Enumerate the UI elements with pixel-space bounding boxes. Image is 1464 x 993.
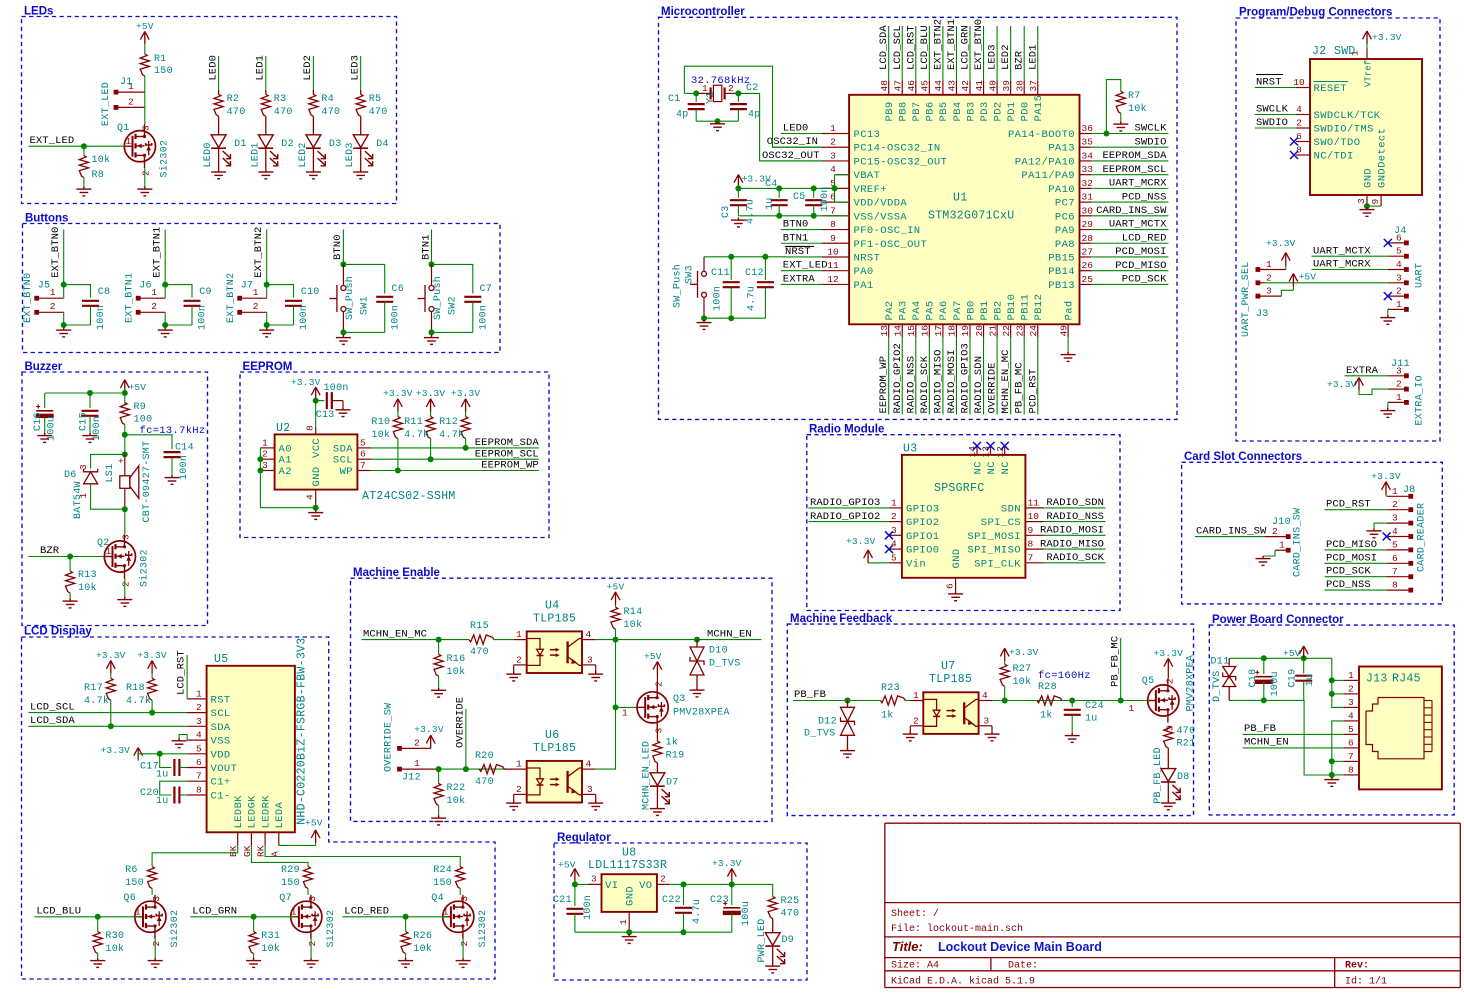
wire SW3 bottom rail xyxy=(704,317,765,319)
IC U5 NHD-C0220BiZ xyxy=(207,666,295,833)
J4 pin3 xyxy=(1404,280,1409,285)
svg-text:26: 26 xyxy=(1082,260,1094,271)
ground (R8) xyxy=(76,187,91,196)
U1 pin23 PB11 xyxy=(1023,324,1025,337)
svg-text:2: 2 xyxy=(50,301,56,312)
wire LED2 branch xyxy=(312,56,314,90)
ground (D8) xyxy=(1161,800,1176,809)
svg-text:KiCad E.D.A. kicad 5.1.9: KiCad E.D.A. kicad 5.1.9 xyxy=(891,976,1035,988)
wire EXT_BTN2 down xyxy=(266,230,268,285)
svg-text:D_TVS: D_TVS xyxy=(709,659,741,670)
svg-text:470: 470 xyxy=(227,107,246,118)
svg-text:J13: J13 xyxy=(1366,673,1388,686)
svg-text:1: 1 xyxy=(618,919,629,925)
section box Machine Feedback xyxy=(787,624,1193,816)
wire +3.3V to Vin xyxy=(868,562,889,564)
svg-text:D6: D6 xyxy=(64,470,77,481)
U1 pin41 PD3 xyxy=(983,81,985,95)
svg-text:TLP185: TLP185 xyxy=(533,742,576,755)
svg-text:PD0: PD0 xyxy=(1020,101,1032,121)
capacitor C23 100u xyxy=(731,884,733,905)
svg-text:OVERRIDE_SW: OVERRIDE_SW xyxy=(384,703,395,772)
capacitor C7 100n xyxy=(464,297,481,302)
svg-text:LCD_SCL: LCD_SCL xyxy=(892,25,904,70)
wire PCD_NSS xyxy=(1092,201,1169,203)
wire RADIO_MOSI xyxy=(1044,534,1106,536)
no-connect X pin4 xyxy=(885,545,893,553)
svg-text:VDD: VDD xyxy=(211,749,231,761)
svg-text:VTref: VTref xyxy=(1364,60,1374,87)
svg-text:7: 7 xyxy=(1348,751,1354,762)
svg-text:1: 1 xyxy=(516,629,522,640)
section box LEDs xyxy=(22,17,397,204)
svg-text:R17: R17 xyxy=(84,683,103,694)
junction (D10) xyxy=(694,637,700,643)
no-connect X J4 pin2 xyxy=(1384,292,1392,300)
svg-text:36: 36 xyxy=(1082,123,1094,134)
svg-text:7: 7 xyxy=(196,771,202,782)
wire RADIO_SCK xyxy=(1044,562,1106,564)
svg-text:C5: C5 xyxy=(793,192,806,203)
capacitor C8 100n xyxy=(82,301,99,306)
junction (U2 gnd) xyxy=(313,505,319,511)
svg-text:C19: C19 xyxy=(1288,669,1299,688)
junction (SW2 bottom) xyxy=(429,329,435,335)
svg-text:3: 3 xyxy=(459,896,470,902)
svg-text:File: lockout-main.sch: File: lockout-main.sch xyxy=(891,923,1023,935)
svg-text:EXT_BTN0: EXT_BTN0 xyxy=(23,273,34,323)
section box EEPROM xyxy=(240,372,549,538)
junction (D6/LS1 top) xyxy=(122,451,128,457)
svg-text:PCD_SCK: PCD_SCK xyxy=(1122,274,1167,286)
svg-text:OSC32_OUT: OSC32_OUT xyxy=(762,150,820,162)
svg-text:D8: D8 xyxy=(1177,772,1190,783)
wire PCD_NSS xyxy=(1325,589,1387,591)
resistor R12 4.7k xyxy=(465,412,467,417)
svg-text:UART_MCRX: UART_MCRX xyxy=(1313,259,1371,271)
svg-text:3: 3 xyxy=(587,654,593,665)
top +5V rail xyxy=(1229,657,1331,659)
svg-text:2: 2 xyxy=(654,681,665,687)
svg-text:PCD_MISO: PCD_MISO xyxy=(1115,260,1166,272)
wire SWCLK xyxy=(1092,133,1169,135)
svg-text:BTN0: BTN0 xyxy=(783,219,809,231)
resistor R14 10k xyxy=(615,605,617,607)
resistor R4 470 xyxy=(312,90,314,94)
ground (R22) xyxy=(431,816,446,825)
svg-text:2: 2 xyxy=(913,715,919,726)
ground (R7) xyxy=(1113,122,1128,131)
U3 pin8 SPI_MISO xyxy=(1025,548,1043,550)
resistor R1 150 xyxy=(140,54,149,76)
svg-text:8: 8 xyxy=(1028,539,1034,550)
U5 pin6 VOUT xyxy=(187,767,207,769)
svg-text:PB2: PB2 xyxy=(992,300,1004,320)
junction (SW2 top) xyxy=(429,261,435,267)
svg-text:R27: R27 xyxy=(1013,664,1032,675)
svg-text:13: 13 xyxy=(879,325,890,337)
svg-text:fc=160Hz: fc=160Hz xyxy=(1038,670,1091,682)
svg-text:7: 7 xyxy=(360,460,366,471)
svg-text:PD3: PD3 xyxy=(979,101,991,121)
svg-text:C15: C15 xyxy=(78,412,89,431)
junction (OVERRIDE) xyxy=(463,766,469,772)
svg-text:1: 1 xyxy=(50,287,56,298)
svg-text:1: 1 xyxy=(253,287,259,298)
ground (Q2) xyxy=(117,597,132,606)
svg-text:LEDRK: LEDRK xyxy=(260,795,272,829)
svg-text:11: 11 xyxy=(827,260,839,271)
svg-text:2: 2 xyxy=(414,738,420,749)
svg-text:2: 2 xyxy=(660,874,666,885)
svg-text:GND: GND xyxy=(1363,168,1375,188)
svg-text:PB8: PB8 xyxy=(898,101,910,121)
svg-text:LCD_SCL: LCD_SCL xyxy=(30,702,75,714)
svg-text:SDA: SDA xyxy=(211,722,231,734)
resistor R11 4.7k xyxy=(430,412,432,417)
svg-text:21: 21 xyxy=(987,325,998,337)
svg-text:Q3: Q3 xyxy=(673,694,686,705)
ground (D4) xyxy=(353,169,368,178)
svg-text:+5V: +5V xyxy=(1299,272,1317,283)
svg-text:LED2: LED2 xyxy=(298,142,309,167)
svg-text:LED2: LED2 xyxy=(1000,44,1012,70)
LED D8 PB_FB_LED xyxy=(1161,769,1180,800)
wire RADIO_MISO (vertical) xyxy=(942,337,944,414)
svg-text:EXT_BTN2: EXT_BTN2 xyxy=(932,19,944,70)
wire EXT_BTN1 (vertical) xyxy=(955,26,957,81)
svg-text:U1: U1 xyxy=(953,192,967,205)
svg-text:+5V: +5V xyxy=(607,581,625,592)
junction (U8 gnd) xyxy=(626,929,632,935)
svg-text:R21: R21 xyxy=(1177,739,1196,750)
svg-text:LCD_RED: LCD_RED xyxy=(344,905,389,917)
svg-text:1: 1 xyxy=(1279,540,1285,551)
U3 pin11 SDN xyxy=(1025,507,1043,509)
svg-text:R23: R23 xyxy=(881,683,900,694)
svg-text:1: 1 xyxy=(262,437,268,448)
U1 pin34 PA12/PA10 xyxy=(1080,160,1092,162)
svg-text:100u: 100u xyxy=(47,416,58,441)
wire PCD_RST xyxy=(1325,509,1387,511)
wire D2 to ground xyxy=(265,148,267,169)
svg-text:GPIO2: GPIO2 xyxy=(906,517,940,529)
svg-text:C22: C22 xyxy=(662,895,681,906)
section box Machine Enable xyxy=(351,578,773,821)
svg-text:C14: C14 xyxy=(175,443,194,454)
svg-text:R5: R5 xyxy=(369,94,382,105)
wire J3 pin1 to +3.3V xyxy=(1260,269,1286,271)
svg-text:100u: 100u xyxy=(741,901,752,926)
svg-text:LED3: LED3 xyxy=(350,55,362,81)
svg-text:2: 2 xyxy=(891,511,897,522)
svg-text:Regulator: Regulator xyxy=(557,832,611,844)
svg-text:D_TVS: D_TVS xyxy=(804,729,836,740)
junction (D12) xyxy=(845,698,851,704)
U1 pin13 PA2 xyxy=(888,324,890,337)
svg-text:R6: R6 xyxy=(125,865,138,876)
svg-text:SW_Push: SW_Push xyxy=(672,264,684,308)
J13 pin1 xyxy=(1344,679,1359,681)
capacitor C24 1u xyxy=(1071,701,1073,708)
svg-text:LED1: LED1 xyxy=(250,142,261,167)
wire RADIO_SCK (vertical) xyxy=(928,337,930,414)
svg-text:LEDA: LEDA xyxy=(274,801,286,828)
svg-text:PA3: PA3 xyxy=(898,300,910,320)
wire RADIO_GPIO3 (vertical) xyxy=(969,337,971,414)
svg-text:+3.3V: +3.3V xyxy=(1154,648,1184,659)
wire RADIO_NSS xyxy=(1044,521,1106,523)
wire PB_FB_MC (vertical) xyxy=(1023,337,1025,414)
capacitor C22 4.7u xyxy=(683,884,685,905)
switch SW1 SW_Push xyxy=(342,264,344,285)
no-connect X pin13 xyxy=(987,442,995,450)
svg-text:PA4: PA4 xyxy=(911,300,923,320)
svg-text:150: 150 xyxy=(281,878,300,889)
svg-text:VREF+: VREF+ xyxy=(854,184,888,196)
junction (BZR/R13) xyxy=(67,554,73,560)
capacitor C3 4.7u xyxy=(737,188,739,198)
svg-text:10k: 10k xyxy=(371,429,390,441)
svg-text:R7: R7 xyxy=(1128,91,1141,102)
capacitor C20 1u xyxy=(160,781,187,795)
svg-text:PA9: PA9 xyxy=(1055,225,1075,237)
LED D3 LED2 xyxy=(306,135,325,166)
svg-text:OVERRIDE: OVERRIDE xyxy=(987,362,999,413)
svg-text:PA11/PA9: PA11/PA9 xyxy=(1021,170,1075,182)
ground (Q4) xyxy=(456,958,471,967)
IC U1 STM32G071CxU xyxy=(849,95,1079,324)
svg-text:19: 19 xyxy=(960,325,971,337)
U6 pin4 xyxy=(583,768,596,770)
wire R12 down xyxy=(465,439,467,448)
U7 pin1 xyxy=(910,700,923,702)
svg-text:CARD_INS_SW: CARD_INS_SW xyxy=(1293,508,1304,577)
svg-text:32: 32 xyxy=(1082,178,1094,189)
svg-text:3: 3 xyxy=(196,716,202,727)
svg-text:NRST: NRST xyxy=(785,246,811,258)
svg-text:LCD_GRN: LCD_GRN xyxy=(960,25,972,70)
junction (R17/SDA) xyxy=(108,723,114,729)
svg-text:2: 2 xyxy=(728,83,734,94)
wire VO rail xyxy=(670,884,773,896)
IC J2 SWD xyxy=(1310,59,1422,195)
resistor R17 4.7k xyxy=(106,661,115,674)
wire U7 pin4 to Q5 xyxy=(992,700,1138,702)
svg-text:R12: R12 xyxy=(439,417,458,428)
svg-text:RADIO_SCK: RADIO_SCK xyxy=(919,355,931,413)
wire OSC32_IN xyxy=(773,146,822,148)
J13 pin4 xyxy=(1344,720,1359,722)
junction (A1) xyxy=(257,456,263,462)
wire VDD xyxy=(138,754,187,761)
power +3.3V (EEPROM) xyxy=(311,387,320,400)
svg-text:LED1: LED1 xyxy=(255,55,267,81)
junction (R31) xyxy=(251,914,257,920)
svg-text:3: 3 xyxy=(1392,513,1398,524)
wire junction to C cap xyxy=(343,264,384,293)
svg-text:RADIO_NSS: RADIO_NSS xyxy=(905,356,917,414)
svg-text:R1: R1 xyxy=(154,54,167,65)
svg-text:EEPROM_SDA: EEPROM_SDA xyxy=(475,437,540,449)
power +3.3V (J8) xyxy=(1382,482,1391,495)
junction (C15 top) xyxy=(87,390,93,396)
optocoupler U4 TLP185 xyxy=(527,631,582,673)
power +5V (PB) xyxy=(1299,646,1308,659)
svg-text:Rev:: Rev: xyxy=(1345,961,1369,972)
svg-text:10k: 10k xyxy=(261,943,280,955)
power +5V (LEDA) xyxy=(311,830,320,843)
resistor R2 470 xyxy=(218,90,220,94)
wire to C14 xyxy=(125,435,172,449)
svg-text:2: 2 xyxy=(196,702,202,713)
svg-text:2: 2 xyxy=(1396,286,1402,297)
overline NRST label xyxy=(1256,74,1283,76)
svg-text:SDA: SDA xyxy=(333,443,353,455)
svg-text:PB13: PB13 xyxy=(1048,280,1075,292)
svg-text:3: 3 xyxy=(78,464,89,470)
svg-text:VBAT: VBAT xyxy=(854,170,881,182)
wire Q4 source to ground xyxy=(462,939,464,958)
junction (J13 pin7) xyxy=(1329,758,1335,764)
U1 pin6 VDD/VDDA xyxy=(822,201,849,203)
wire junction to C cap xyxy=(165,285,192,298)
junction (R27) xyxy=(1002,698,1008,704)
svg-text:29: 29 xyxy=(1082,219,1094,230)
junction (C4 bot) xyxy=(776,213,782,219)
wire junction to C cap xyxy=(432,264,473,293)
svg-text:C3: C3 xyxy=(721,205,732,218)
svg-text:PA15: PA15 xyxy=(1033,95,1045,122)
svg-text:R3: R3 xyxy=(274,94,287,105)
svg-text:PB_FB: PB_FB xyxy=(1244,723,1276,735)
svg-text:RADIO_MOSI: RADIO_MOSI xyxy=(946,349,958,413)
svg-text:6: 6 xyxy=(945,583,956,589)
svg-text:2: 2 xyxy=(1348,683,1354,694)
svg-text:2: 2 xyxy=(1266,272,1272,283)
ground (U8) xyxy=(622,934,637,943)
svg-text:10: 10 xyxy=(827,246,839,257)
svg-text:39: 39 xyxy=(1001,80,1012,92)
U1 pin15 PA4 xyxy=(915,324,917,337)
U1 pin3 PC15-OSC32_OUT xyxy=(822,160,849,162)
U1 pin27 PB15 xyxy=(1080,256,1092,258)
wire main vertical xyxy=(124,435,126,455)
wire LCD_RST (vertical) xyxy=(915,26,917,81)
wire crystal top hook xyxy=(684,92,696,94)
svg-text:CARD_READER: CARD_READER xyxy=(1417,503,1428,572)
wire SWDIO xyxy=(1255,127,1296,129)
switch SW2 SW_Push xyxy=(431,264,433,285)
junction (C18 bot) xyxy=(1261,697,1267,703)
wire RADIO_MOSI (vertical) xyxy=(955,337,957,414)
wire +5V to R1 xyxy=(144,44,146,54)
wire LCD_GRN (vertical) xyxy=(969,26,971,81)
svg-text:15: 15 xyxy=(906,325,917,337)
svg-text:10k: 10k xyxy=(447,666,466,678)
U2 pin7 WP xyxy=(357,470,371,472)
overline NRST xyxy=(785,245,814,247)
junction (SW1 top) xyxy=(340,261,346,267)
wire EEPROM_SCL xyxy=(1092,174,1169,176)
ground (C3) xyxy=(731,218,746,227)
svg-text:C1+: C1+ xyxy=(211,777,231,789)
J4 pin5 xyxy=(1404,254,1409,259)
capacitor C4 1u xyxy=(778,188,780,198)
ground (J7) xyxy=(259,328,274,337)
wire Q1 source to ground xyxy=(144,168,146,186)
wire pin2 to bottom junction xyxy=(266,312,268,325)
svg-text:Machine Enable: Machine Enable xyxy=(353,567,440,579)
svg-text:+3.3V: +3.3V xyxy=(414,724,444,735)
svg-text:U2: U2 xyxy=(276,422,290,435)
svg-text:EXTRA: EXTRA xyxy=(1346,365,1379,377)
J8 pin1 xyxy=(1408,494,1413,499)
svg-text:C1-: C1- xyxy=(211,791,231,803)
svg-text:2: 2 xyxy=(121,581,132,587)
svg-text:EEPROM_SCL: EEPROM_SCL xyxy=(475,448,539,460)
wire OSC32_OUT xyxy=(760,160,822,162)
svg-text:2: 2 xyxy=(307,941,318,947)
ground (SW2) xyxy=(424,335,439,344)
ground (D7) xyxy=(650,806,665,815)
U1 pin21 PB2 xyxy=(996,324,998,337)
power +3.3V (R10) xyxy=(394,399,403,412)
wire junction to C cap xyxy=(64,285,91,298)
svg-text:RADIO_MOSI: RADIO_MOSI xyxy=(1040,525,1104,537)
resistor R5 470 xyxy=(360,90,362,94)
wire OVERRIDE up xyxy=(465,709,467,769)
svg-text:R30: R30 xyxy=(105,931,124,942)
U3 pin12 NC xyxy=(1004,446,1006,455)
svg-text:+: + xyxy=(118,456,124,467)
wire PB_FB (J13) xyxy=(1243,733,1345,735)
svg-text:6: 6 xyxy=(830,192,836,203)
U7 pin4 xyxy=(979,700,992,702)
svg-text:D10: D10 xyxy=(709,646,728,657)
svg-text:PMV28XPEA: PMV28XPEA xyxy=(1186,655,1197,712)
junction (+3.3V/C23) xyxy=(729,881,735,887)
J13 pin3 xyxy=(1344,706,1359,708)
junction (R14/Q3 node) xyxy=(613,637,619,643)
speaker LS1 CBT-09427-SMT xyxy=(124,454,126,475)
junction (R7/SWCLK) xyxy=(1103,131,1109,137)
U1 pin11 PA0 xyxy=(822,270,849,272)
svg-text:1u: 1u xyxy=(156,796,169,807)
U1 pin43 PB4 xyxy=(955,81,957,95)
U3 pin3 GPIO1 xyxy=(889,534,902,536)
svg-text:100u: 100u xyxy=(1270,671,1281,696)
wire EEPROM_SDA xyxy=(371,447,539,449)
power +3.3V (reg) xyxy=(727,868,736,881)
svg-text:RADIO_GPIO3: RADIO_GPIO3 xyxy=(960,343,972,413)
svg-text:PA1: PA1 xyxy=(854,280,874,292)
U3 pin10 SPI_CS xyxy=(1025,521,1043,523)
wire PCD_SCK xyxy=(1092,283,1169,285)
U4 pin4 xyxy=(583,639,596,641)
wire PCD_SCK xyxy=(1325,576,1387,578)
svg-text:MCHN_EN_MC: MCHN_EN_MC xyxy=(363,628,427,640)
junction (C5 bot) xyxy=(811,213,817,219)
ground (J5) xyxy=(56,328,71,337)
junction (Q3 gate) xyxy=(613,704,619,710)
wire PB_FB_MC up xyxy=(1120,638,1122,701)
U6 pin3 to ground xyxy=(583,793,596,795)
svg-text:CARD_INS_SW: CARD_INS_SW xyxy=(1096,205,1167,217)
power +3.3V (J12 pin2) xyxy=(426,735,435,748)
U5 pin2 SCL xyxy=(187,712,207,714)
wire J2 gnd xyxy=(1367,205,1381,207)
